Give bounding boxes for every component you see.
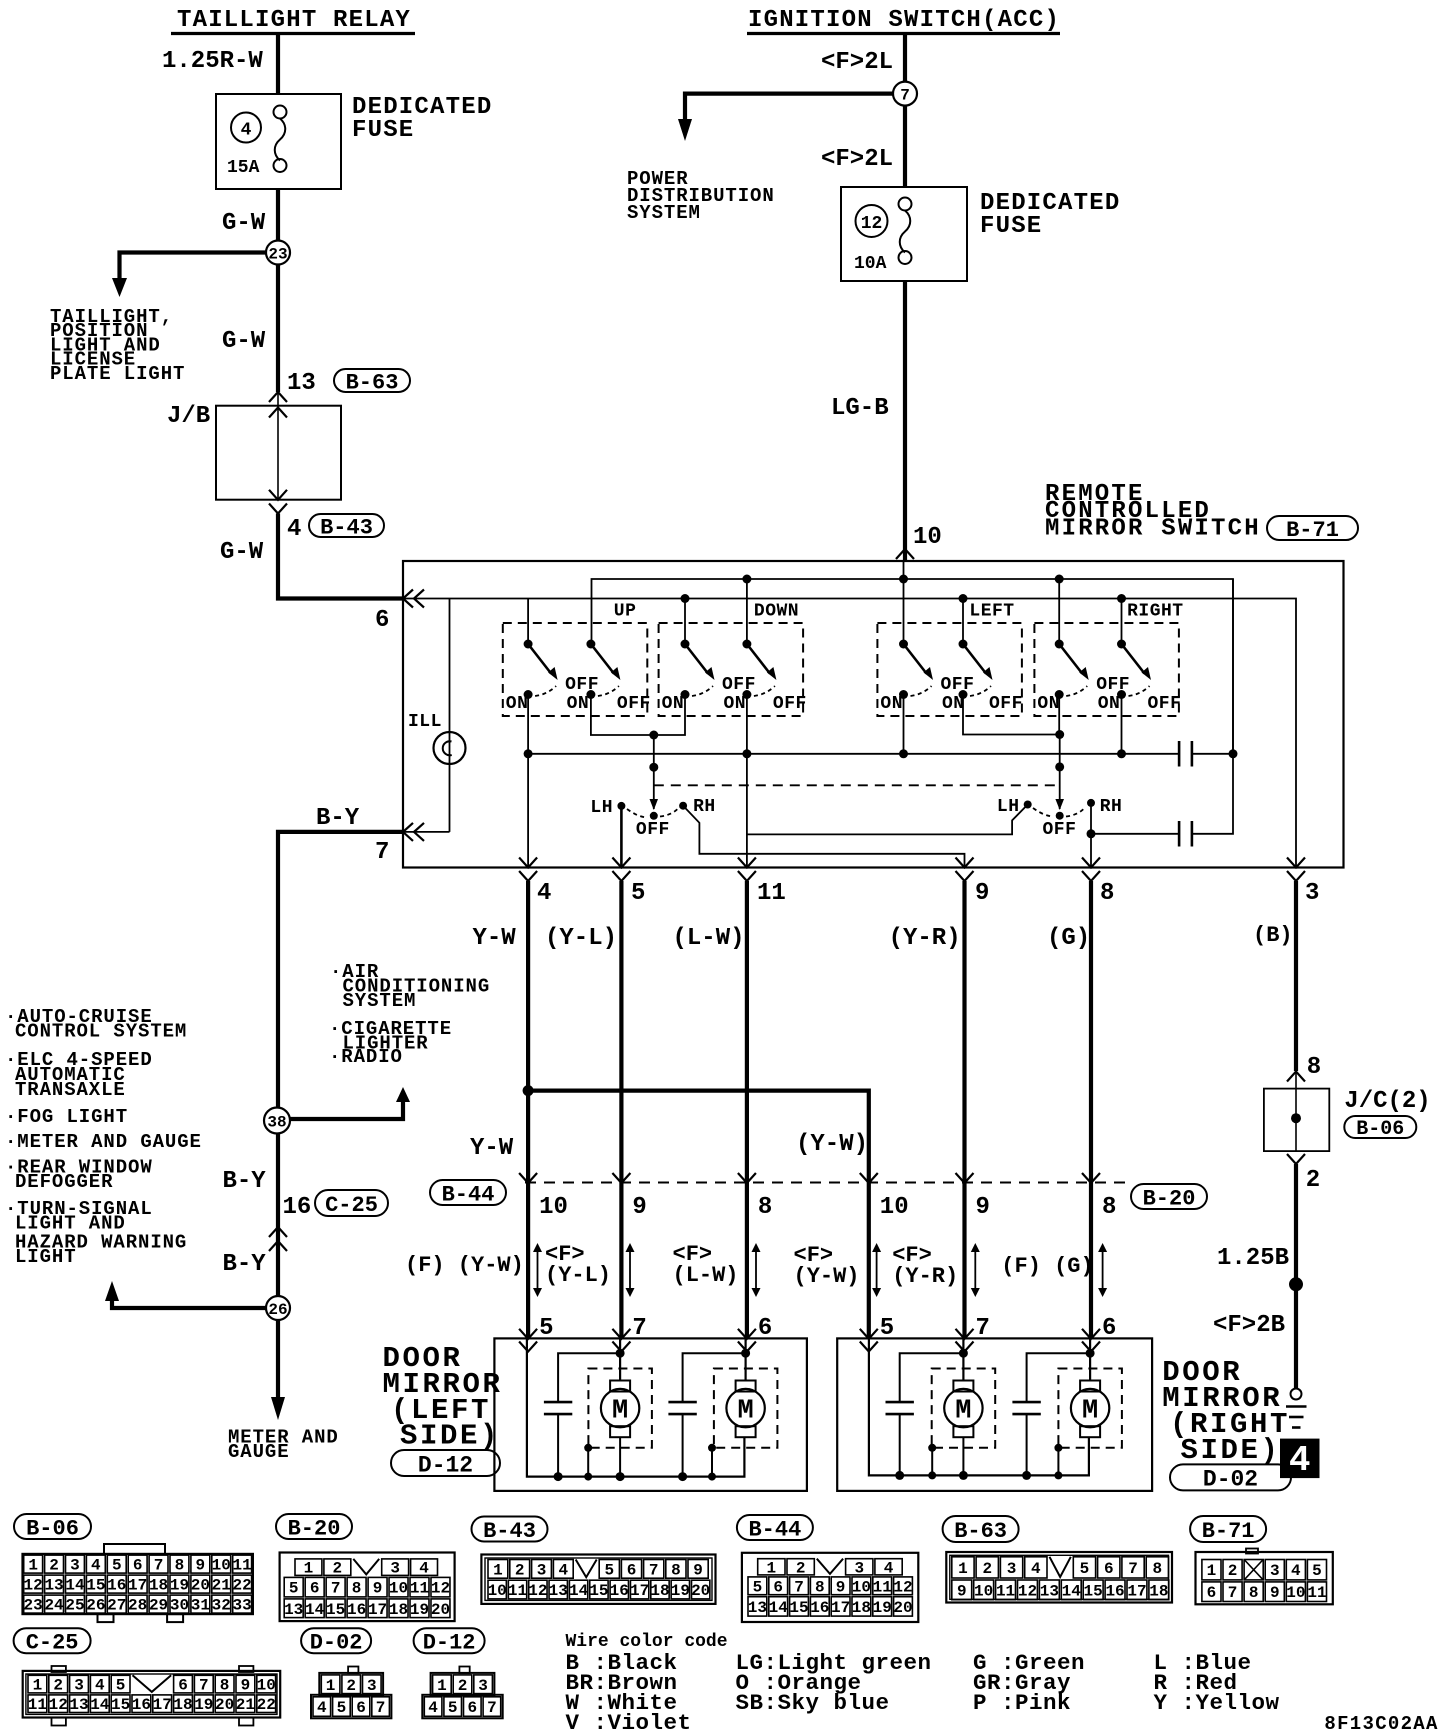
svg-text:1: 1 xyxy=(437,1677,447,1695)
mirror motor feed wire xyxy=(962,1338,964,1380)
svg-text:15: 15 xyxy=(589,1582,608,1600)
connector table B-63 label xyxy=(943,1516,1019,1542)
svg-text:19: 19 xyxy=(194,1696,213,1714)
DOWN blade 2 xyxy=(747,644,770,674)
arrow to turn-signal text xyxy=(105,1281,119,1301)
title underline xyxy=(171,32,415,35)
svg-text:5: 5 xyxy=(337,1699,347,1717)
connector ref B-43 xyxy=(309,514,384,537)
fuse number circle 4 xyxy=(231,113,261,143)
svg-text:J/B: J/B xyxy=(167,403,210,430)
bidirectional arrow x=537.5 xyxy=(537,1250,539,1290)
bidirectional arrow x=975.3 xyxy=(974,1250,976,1290)
wire RIGHT-right contact to bus C xyxy=(1121,695,1123,754)
svg-text:15: 15 xyxy=(789,1599,808,1617)
wire 1.25B to ground xyxy=(1294,1164,1298,1388)
svg-text:·RADIO: ·RADIO xyxy=(329,1046,403,1068)
svg-text:5: 5 xyxy=(448,1699,458,1717)
wire DOWN-right contact to pin 11 xyxy=(746,695,748,868)
switch box DOWN xyxy=(659,623,804,716)
svg-text:B-71: B-71 xyxy=(1286,518,1339,543)
svg-text:ON: ON xyxy=(880,694,903,714)
svg-text:D-02: D-02 xyxy=(310,1631,363,1656)
motor case lead xyxy=(587,1448,589,1477)
connector table B-20 xyxy=(280,1553,455,1622)
svg-text:ON: ON xyxy=(724,694,747,714)
svg-text:8: 8 xyxy=(1249,1584,1259,1602)
connector ref B-06 xyxy=(1344,1116,1416,1138)
UP contact 2 xyxy=(586,690,595,699)
DOWN contact 1 xyxy=(681,690,690,699)
svg-text:RH: RH xyxy=(693,797,716,817)
svg-text:M: M xyxy=(955,1397,971,1427)
wire branch to turn-signal xyxy=(112,1299,266,1308)
svg-text:C-25: C-25 xyxy=(26,1631,79,1656)
svg-text:14: 14 xyxy=(569,1582,589,1600)
svg-text:13: 13 xyxy=(1040,1582,1059,1600)
junction cap bus xyxy=(1022,1471,1031,1480)
svg-text:4: 4 xyxy=(1291,1562,1301,1580)
svg-text:14: 14 xyxy=(65,1577,85,1595)
svg-text:B-20: B-20 xyxy=(1143,1186,1196,1211)
svg-text:12: 12 xyxy=(861,214,883,234)
svg-text:FUSE: FUSE xyxy=(980,213,1042,240)
svg-text:OFF: OFF xyxy=(941,675,975,695)
wire B-Y pin7 to node 38 xyxy=(278,832,403,1108)
capacitor branch xyxy=(1027,1353,1091,1402)
capacitor mirror xyxy=(668,1401,696,1404)
svg-text:14: 14 xyxy=(305,1601,325,1619)
connector table B-43 xyxy=(481,1555,715,1604)
svg-text:TAILLIGHT RELAY: TAILLIGHT RELAY xyxy=(177,7,411,34)
svg-text:LH: LH xyxy=(997,797,1020,817)
chevrons mirror entry x=964.5 xyxy=(956,1329,974,1339)
LEFT blade 2 xyxy=(963,644,986,674)
svg-text:7: 7 xyxy=(154,1557,164,1575)
motor case lead xyxy=(711,1448,713,1477)
svg-text:5: 5 xyxy=(1312,1562,1322,1580)
svg-text:10: 10 xyxy=(913,524,942,551)
connector table B-44 label xyxy=(737,1515,813,1540)
LEFT contact 2 xyxy=(959,690,968,699)
chevron dashed crossing x=868.8 xyxy=(860,1173,878,1183)
svg-text:DEFOGGER: DEFOGGER xyxy=(15,1171,113,1193)
connector ref B-71 xyxy=(1267,516,1358,540)
svg-text:1.25R-W: 1.25R-W xyxy=(162,48,263,75)
svg-text:16: 16 xyxy=(1105,1582,1124,1600)
selector2 throw arcs xyxy=(1033,808,1084,817)
svg-text:OFF: OFF xyxy=(773,694,807,714)
junction splice dot xyxy=(1289,1277,1303,1291)
svg-text:7: 7 xyxy=(376,1699,386,1717)
junction bus B LEFT-right xyxy=(959,594,968,603)
junction motor bus xyxy=(959,1471,968,1480)
svg-text:4: 4 xyxy=(428,1699,438,1717)
motor case lead xyxy=(1057,1448,1059,1476)
svg-text:<F>2L: <F>2L xyxy=(821,146,893,173)
selector2 common arrow xyxy=(1055,799,1064,810)
switch box LEFT xyxy=(877,623,1022,716)
chevrons pin 6 entry xyxy=(403,590,413,608)
junction bus C cap vertical xyxy=(1229,749,1238,758)
wire G-W node23 to J/B xyxy=(276,265,280,393)
svg-text:(B): (B) xyxy=(1253,923,1293,948)
chevron J/C entry xyxy=(1287,1072,1305,1082)
svg-text:(Y-W): (Y-W) xyxy=(796,1131,868,1158)
connector table B-06 label xyxy=(14,1514,91,1539)
connector table B-71 label xyxy=(1190,1516,1266,1542)
wire LEFT-left contact to bus C xyxy=(903,695,905,754)
capacitor C1 xyxy=(1178,741,1181,767)
svg-text:15A: 15A xyxy=(227,158,260,178)
chevrons pin 9 exit xyxy=(956,858,974,868)
svg-text:SIDE): SIDE) xyxy=(1181,1434,1281,1467)
svg-text:V :Violet: V :Violet xyxy=(566,1710,692,1736)
svg-text:14: 14 xyxy=(769,1599,789,1617)
svg-text:OFF: OFF xyxy=(617,694,651,714)
UP blade arrow 2 xyxy=(611,667,621,680)
svg-text:3: 3 xyxy=(854,1559,864,1577)
bidirectional arrow x=876.6 xyxy=(876,1250,878,1290)
svg-text:5: 5 xyxy=(753,1578,763,1596)
wire G-W to mirror switch pin 6 xyxy=(278,514,403,599)
svg-text:19: 19 xyxy=(170,1577,189,1595)
mirror motor feed wire xyxy=(1089,1338,1091,1380)
svg-text:2: 2 xyxy=(53,1677,63,1695)
svg-text:3: 3 xyxy=(1007,1560,1017,1578)
svg-text:20: 20 xyxy=(431,1601,450,1619)
svg-text:23: 23 xyxy=(24,1597,43,1615)
svg-text:ON: ON xyxy=(662,694,685,714)
LEFT pivot 2 xyxy=(959,640,968,649)
svg-text:9: 9 xyxy=(957,1582,967,1600)
wire F2L feed xyxy=(903,35,907,82)
capacitor C2 xyxy=(1178,821,1181,847)
svg-text:RH: RH xyxy=(1100,797,1123,817)
svg-text:3: 3 xyxy=(537,1561,547,1579)
fuse element F4 xyxy=(274,106,287,119)
UP blade 2 xyxy=(591,644,614,674)
motor M xyxy=(588,1369,652,1448)
svg-text:·FOG LIGHT: ·FOG LIGHT xyxy=(5,1106,128,1128)
svg-text:1: 1 xyxy=(304,1560,314,1578)
junction bus B RIGHT-right xyxy=(1117,594,1126,603)
svg-text:16: 16 xyxy=(810,1599,829,1617)
svg-text:7: 7 xyxy=(487,1699,497,1717)
svg-text:15: 15 xyxy=(111,1696,130,1714)
svg-text:(F) (G): (F) (G) xyxy=(1001,1254,1093,1279)
svg-text:22: 22 xyxy=(233,1577,252,1595)
svg-text:7: 7 xyxy=(1228,1584,1238,1602)
svg-text:12: 12 xyxy=(24,1577,43,1595)
connector ref B-20 xyxy=(1131,1184,1207,1209)
svg-text:4: 4 xyxy=(287,516,301,543)
svg-text:2: 2 xyxy=(1306,1167,1320,1194)
node 38 xyxy=(264,1108,290,1134)
svg-text:G-W: G-W xyxy=(222,210,266,237)
svg-text:26: 26 xyxy=(268,1301,287,1319)
svg-text:8: 8 xyxy=(1153,1560,1163,1578)
door mirror right side D-02 box xyxy=(837,1338,1152,1491)
svg-text:6: 6 xyxy=(773,1578,783,1596)
svg-text:4: 4 xyxy=(241,121,252,141)
svg-text:B-63: B-63 xyxy=(954,1519,1007,1544)
svg-text:24: 24 xyxy=(44,1597,64,1615)
svg-text:18: 18 xyxy=(852,1599,871,1617)
door mirror left side D-12 box xyxy=(494,1338,807,1491)
wire branch to radio etc xyxy=(290,1100,403,1119)
connector boundary dashed B-44 B-20 xyxy=(525,1182,1125,1184)
wire UP-left contact to pin 4 xyxy=(527,695,529,868)
chevron dashed crossing x=746.9 xyxy=(738,1173,756,1183)
svg-text:11: 11 xyxy=(410,1580,429,1598)
junction selector1 top xyxy=(649,731,658,740)
chevrons mirror entry x=1091 xyxy=(1082,1329,1100,1339)
connector table D-02 label xyxy=(301,1628,371,1653)
svg-text:11: 11 xyxy=(873,1578,892,1596)
ILL lamp xyxy=(434,732,466,764)
svg-text:8: 8 xyxy=(1100,880,1114,907)
svg-text:11: 11 xyxy=(1307,1584,1326,1602)
node 23 xyxy=(266,241,290,265)
svg-text:LH: LH xyxy=(590,798,613,818)
svg-text:OFF: OFF xyxy=(636,820,670,840)
mirror motor feed wire xyxy=(744,1338,746,1380)
svg-text:B-Y: B-Y xyxy=(316,805,360,832)
svg-text:17: 17 xyxy=(153,1696,172,1714)
bus B pin6 to pin3 xyxy=(403,599,1296,868)
svg-text:4: 4 xyxy=(1031,1560,1041,1578)
svg-text:18: 18 xyxy=(149,1577,168,1595)
svg-text:9: 9 xyxy=(373,1580,383,1598)
svg-text:(Y-R): (Y-R) xyxy=(889,925,961,952)
UP blade 1 xyxy=(528,644,551,674)
svg-text:11: 11 xyxy=(233,1557,252,1575)
wire ILL lamp vertical xyxy=(449,599,451,832)
wire selector1 LH to pin 5 xyxy=(620,806,623,868)
svg-text:Y :Yellow: Y :Yellow xyxy=(1154,1690,1280,1716)
svg-text:Wire color code: Wire color code xyxy=(566,1632,728,1652)
RIGHT blade 2 xyxy=(1122,644,1145,674)
svg-text:(Y-L): (Y-L) xyxy=(545,1263,611,1288)
junction inside J/C xyxy=(1291,1113,1301,1123)
selector2 LH contact xyxy=(1024,801,1032,809)
svg-text:16: 16 xyxy=(132,1696,151,1714)
RIGHT contact 2 xyxy=(1117,690,1126,699)
svg-text:6: 6 xyxy=(467,1699,477,1717)
svg-text:IGNITION SWITCH(ACC): IGNITION SWITCH(ACC) xyxy=(748,7,1060,34)
junction motor feed xyxy=(959,1349,968,1358)
svg-text:9: 9 xyxy=(196,1557,206,1575)
UP throw arc 2 xyxy=(598,686,619,696)
svg-text:B-71: B-71 xyxy=(1202,1519,1255,1544)
svg-text:10A: 10A xyxy=(854,254,887,274)
svg-text:19: 19 xyxy=(671,1582,690,1600)
DOWN blade arrow 1 xyxy=(705,667,715,680)
svg-text:DOWN: DOWN xyxy=(754,602,799,622)
svg-text:10: 10 xyxy=(389,1580,408,1598)
capacitor branch xyxy=(683,1353,746,1402)
svg-text:6: 6 xyxy=(627,1561,637,1579)
svg-text:B-06: B-06 xyxy=(26,1516,79,1541)
stub RIGHT left pivot xyxy=(1058,579,1060,644)
svg-text:<F>2L: <F>2L xyxy=(821,49,893,76)
svg-text:1: 1 xyxy=(326,1677,336,1695)
svg-text:11: 11 xyxy=(28,1696,47,1714)
UP pivot 2 xyxy=(586,640,595,649)
svg-text:6: 6 xyxy=(178,1677,188,1695)
fuse number circle 12 xyxy=(856,205,888,237)
svg-text:8: 8 xyxy=(175,1557,185,1575)
chevrons pin 4 exit xyxy=(519,858,537,868)
svg-text:23: 23 xyxy=(268,246,287,264)
UP contact 1 xyxy=(524,690,533,699)
svg-text:2: 2 xyxy=(49,1557,59,1575)
wire selector2 RH to pin 8 xyxy=(1090,803,1092,868)
connector chevrons B-43 pin4 xyxy=(269,490,287,500)
svg-text:6: 6 xyxy=(133,1557,143,1575)
junction bus B DOWN-left xyxy=(681,594,690,603)
UP blade arrow 1 xyxy=(548,667,558,680)
svg-text:1.25B: 1.25B xyxy=(1217,1245,1289,1272)
svg-text:5: 5 xyxy=(116,1677,126,1695)
svg-text:4: 4 xyxy=(317,1699,327,1717)
capacitor branch xyxy=(900,1353,964,1402)
wire B-Y to meter and gauge xyxy=(276,1320,280,1400)
connector ref D-12 xyxy=(391,1450,500,1476)
wire Y-W branch to right mirror xyxy=(528,1091,869,1339)
svg-text:D-02: D-02 xyxy=(1203,1467,1258,1493)
chevrons C-25 pin16 crossing xyxy=(269,1227,287,1237)
junction selector2 top xyxy=(1055,730,1064,739)
svg-text:D-12: D-12 xyxy=(418,1452,473,1478)
LEFT blade arrow 2 xyxy=(983,667,993,680)
svg-text:B-06: B-06 xyxy=(1356,1118,1404,1141)
svg-text:(L-W): (L-W) xyxy=(673,925,745,952)
junction motor bus xyxy=(616,1472,625,1481)
RIGHT throw arc 2 xyxy=(1129,686,1150,696)
svg-text:G-W: G-W xyxy=(222,328,266,355)
connector table B-20 label xyxy=(276,1514,352,1539)
svg-text:19: 19 xyxy=(873,1599,892,1617)
svg-text:3: 3 xyxy=(1305,880,1319,907)
motor M xyxy=(932,1369,996,1448)
svg-text:12: 12 xyxy=(893,1578,912,1596)
svg-text:2: 2 xyxy=(458,1677,468,1695)
svg-text:21: 21 xyxy=(212,1577,231,1595)
wire selector2 LH to pin 11 line xyxy=(747,805,1028,835)
svg-text:14: 14 xyxy=(1062,1582,1082,1600)
svg-text:OFF: OFF xyxy=(565,675,599,695)
selector2 RH contact xyxy=(1087,799,1095,807)
LEFT blade 1 xyxy=(904,644,927,674)
junction block J/B box xyxy=(216,406,341,500)
svg-text:SB:Sky blue: SB:Sky blue xyxy=(736,1690,890,1716)
wire RIGHT-left contact down xyxy=(1058,695,1060,735)
svg-text:LEFT: LEFT xyxy=(969,602,1014,622)
junction bus C RIGHT-right xyxy=(1117,749,1126,758)
svg-text:17: 17 xyxy=(630,1582,649,1600)
chevrons mirror entry x=868.8 xyxy=(860,1329,878,1339)
LEFT throw arc 1 xyxy=(911,686,932,696)
selector1 LH contact xyxy=(617,802,625,810)
svg-text:M: M xyxy=(737,1397,753,1427)
connector table B-63 xyxy=(946,1552,1172,1603)
svg-text:CONTROL SYSTEM: CONTROL SYSTEM xyxy=(15,1021,187,1043)
svg-text:17: 17 xyxy=(128,1577,147,1595)
junction Y-W branch xyxy=(523,1085,534,1096)
connector table D-12 label xyxy=(414,1628,485,1653)
selector1 throw arcs xyxy=(627,809,678,818)
svg-text:8: 8 xyxy=(1307,1054,1321,1081)
svg-text:15: 15 xyxy=(326,1601,345,1619)
svg-text:G-W: G-W xyxy=(220,539,264,566)
junction motor feed xyxy=(616,1349,625,1358)
remote controlled mirror switch B-71 box xyxy=(403,561,1344,868)
svg-text:ON: ON xyxy=(506,694,529,714)
junction pin8 capacitor branch xyxy=(1087,829,1096,838)
LEFT contact 1 xyxy=(899,690,908,699)
selector1 OFF contact xyxy=(650,812,658,820)
svg-text:10: 10 xyxy=(880,1194,909,1221)
svg-text:GAUGE: GAUGE xyxy=(228,1441,290,1463)
svg-text:10: 10 xyxy=(488,1582,507,1600)
junction cap bus xyxy=(678,1472,687,1481)
capacitor lead to bus xyxy=(899,1414,901,1475)
svg-text:OFF: OFF xyxy=(1043,820,1077,840)
switch box RIGHT xyxy=(1034,623,1179,716)
DOWN pivot 1 xyxy=(681,640,690,649)
svg-text:3: 3 xyxy=(74,1677,84,1695)
svg-text:7: 7 xyxy=(331,1580,341,1598)
wire Y-L pin5 to left mirror xyxy=(619,881,623,1338)
svg-text:FUSE: FUSE xyxy=(352,117,414,144)
wire G-W fuse to node 23 xyxy=(276,189,280,241)
wire C2 to bus C vertical xyxy=(1192,754,1233,834)
arrow to accessories text xyxy=(396,1087,410,1102)
connector table B-43 label xyxy=(472,1517,548,1542)
wire selector2 common xyxy=(1059,735,1061,810)
svg-text:7: 7 xyxy=(649,1561,659,1579)
svg-text:15: 15 xyxy=(1084,1582,1103,1600)
svg-text:3: 3 xyxy=(478,1677,488,1695)
node 26 xyxy=(266,1296,290,1320)
svg-text:B-20: B-20 xyxy=(288,1516,341,1541)
svg-text:8F13C02AA: 8F13C02AA xyxy=(1324,1713,1438,1735)
capacitor lead to bus xyxy=(682,1414,684,1477)
capacitor branch xyxy=(558,1353,620,1402)
svg-text:18: 18 xyxy=(1149,1582,1168,1600)
chevron dashed crossing x=528.1 xyxy=(519,1173,537,1183)
wire branch to power distribution xyxy=(685,94,893,121)
svg-text:9: 9 xyxy=(975,880,989,907)
connector table D-12 xyxy=(459,1667,469,1674)
bus C right of capacitor xyxy=(1192,753,1233,755)
wire F2L to fuse 12 xyxy=(903,106,907,187)
svg-text:1: 1 xyxy=(493,1561,503,1579)
svg-text:J/C(2): J/C(2) xyxy=(1344,1088,1430,1115)
chevrons pin 3 exit xyxy=(1287,858,1305,868)
selector1 common arrow xyxy=(650,799,659,810)
junction connector J/C(2) box xyxy=(1264,1089,1329,1152)
svg-text:RIGHT: RIGHT xyxy=(1127,602,1184,622)
svg-text:16: 16 xyxy=(283,1194,312,1221)
arrow to taillight text xyxy=(112,278,127,297)
svg-text:ILL: ILL xyxy=(408,712,442,732)
junction motor feed xyxy=(741,1349,750,1358)
mirror motor feed wire xyxy=(619,1338,621,1380)
svg-text:28: 28 xyxy=(128,1597,147,1615)
